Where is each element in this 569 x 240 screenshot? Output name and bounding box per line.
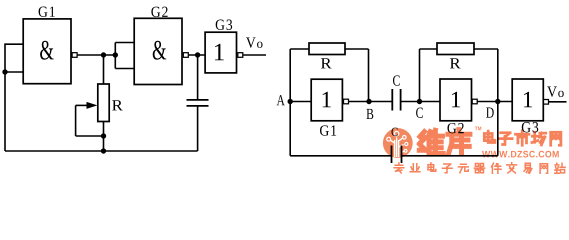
watermark url WWW.DZSC.COM [482,151,559,158]
label D [486,107,494,117]
node label A [277,95,285,105]
label C above cap [393,75,400,85]
resistor R2 (right circuit) [420,43,499,68]
wire cap to node C [401,101,420,103]
node A junction [288,99,293,104]
rail R2 down through D to bottom [497,49,499,156]
node D [495,99,500,104]
output wire Vo (right) [548,101,566,103]
wire G1 output to G2 branch [77,54,116,56]
watermark slogan bottom row [394,163,565,174]
wire A to G1 input [290,101,311,103]
bottom rail left part [290,155,391,157]
gate G3 (inverter, right circuit) [512,79,543,132]
capacitor C (B to C) [392,89,400,111]
watermark TM mark [475,127,481,131]
G2 output bubble [183,53,188,58]
wiper junction [101,133,106,138]
capacitor bottom lead [197,106,199,151]
watermark brand text 维库 [419,130,470,154]
rail node C up to R2 [419,49,421,102]
G1 output bubble (right) [344,99,349,104]
lead to bottom rail [103,136,105,151]
gate G2 (AND, left circuit) [134,7,182,85]
label B [366,109,373,119]
G3 output bubble (right) [544,100,549,105]
resistor R (potentiometer body) [98,84,123,122]
node: wire to R [101,52,106,57]
capacitor lead down [197,55,199,100]
wire G2 out to G3 in [477,101,512,103]
bottom feedback rail (left circuit) [5,150,198,152]
watermark text dianzishichangwang [484,131,561,146]
gate G1 (AND, left circuit) [23,7,71,84]
capacitor C1 (left circuit) [187,100,209,106]
node C [417,99,422,104]
branch to G2 inputs [115,43,134,69]
G3 output bubble [238,53,243,58]
G1 output bubble [72,53,77,58]
left rail of right circuit [289,49,291,156]
node to capacitor [195,52,200,57]
bottom rail junction [101,148,106,153]
wiper arm with arrow [76,102,104,136]
label C node [416,108,423,118]
G2 output bubble (right) [472,99,477,104]
wire down to R [103,55,105,84]
R bottom lead [103,122,105,137]
wire G2 out to G3 in [188,54,205,56]
gate G3 (buffer, left circuit) [205,20,236,73]
output wire Vo (left) [243,54,266,56]
node: wire to G2 inputs [113,52,118,57]
watermark logo circle [383,128,413,158]
resistor R1 (right circuit) [290,43,368,102]
wire G1 out to cap [348,101,392,103]
gate G1 (inverter, right circuit) [311,79,342,136]
junction on left rail [2,69,7,74]
G1 input wires and left feedback rail [5,43,23,151]
label C bottom cap [392,128,398,136]
wire C to G2 input [420,101,441,103]
node B [366,99,371,104]
capacitor C (bottom, D to A) [392,146,402,164]
label Vo (right) [547,87,564,97]
gate G2 (inverter, right circuit) [440,79,472,133]
label Vo (left) [246,37,263,47]
bottom rail right part [402,155,498,157]
